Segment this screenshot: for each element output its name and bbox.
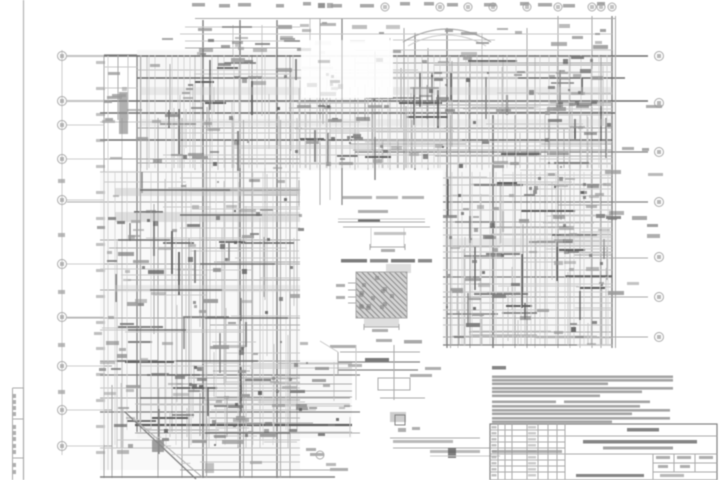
left dimension chain line bbox=[58, 50, 108, 470]
right margin leader annotations bbox=[622, 105, 663, 285]
left bubble leader lines bbox=[67, 56, 104, 446]
staircase diagonal flight bbox=[125, 412, 202, 479]
sheet left border line bbox=[23, 0, 25, 480]
detail node 1 header text bbox=[342, 196, 424, 199]
top band fine vertical striping bbox=[141, 55, 607, 168]
left wing horizontal wall accents bbox=[118, 190, 290, 433]
upper courtyard white gap overlay bbox=[301, 41, 393, 98]
column axis grid - vertical lines bbox=[104, 16, 612, 478]
upper-left block text marks bbox=[197, 3, 401, 55]
right wing infill wall lines bbox=[448, 170, 612, 345]
row axis grid - horizontal lines bbox=[67, 19, 648, 478]
detail node 3 drawing bbox=[320, 340, 441, 400]
top band wall text annotations bbox=[150, 56, 611, 169]
top axis bubbles row bbox=[381, 3, 616, 11]
right wing wall text annotations bbox=[443, 170, 624, 345]
right axis bubbles column bbox=[655, 52, 664, 342]
top band wall segments bbox=[160, 59, 606, 180]
top-left wing walls bbox=[104, 55, 137, 120]
left wing corridor gray bands bbox=[115, 188, 300, 292]
left axis bubbles column bbox=[58, 52, 67, 451]
building footprint light wash bbox=[100, 50, 615, 470]
bottom wing sparse text marks bbox=[205, 440, 336, 473]
left wing bottom infill wall lines bbox=[151, 362, 352, 437]
wall pair companion lines bbox=[141, 16, 616, 478]
top band infill wall lines bbox=[149, 55, 612, 168]
detail node 1 drawing bbox=[338, 210, 430, 252]
upper band sparse annotations bbox=[162, 24, 600, 56]
upper courtyard white gap bbox=[301, 40, 393, 98]
upper-left block wall lines bbox=[185, 25, 305, 55]
title block stamp table bbox=[490, 424, 717, 480]
detail node 4 drawing bbox=[390, 412, 500, 458]
right wing fine vertical striping bbox=[446, 172, 608, 344]
left wing fine vertical striping bbox=[104, 172, 286, 445]
detail node 2 hatched square bbox=[301, 264, 496, 342]
notes header text bbox=[492, 366, 506, 370]
left margin stamp table bbox=[13, 388, 24, 480]
top-left corner wall pier bbox=[119, 92, 128, 134]
left wing infill wall lines bbox=[100, 174, 300, 448]
top dimension annotations bbox=[192, 2, 605, 8]
right wing wall segments bbox=[446, 179, 612, 327]
title block text entries bbox=[627, 428, 659, 432]
left wing wall text annotations bbox=[106, 179, 362, 446]
bottom middle section mark bbox=[306, 448, 348, 471]
notes paragraph lines bbox=[492, 376, 673, 424]
curved bay wall arc bbox=[403, 29, 491, 42]
left dimension chain annotations bbox=[94, 87, 149, 454]
top band corridor gray bands bbox=[140, 87, 612, 247]
top-right corner extra wall marks bbox=[549, 29, 608, 111]
left wing wall segments bbox=[116, 172, 294, 454]
detail node 2 header text bbox=[341, 259, 432, 263]
